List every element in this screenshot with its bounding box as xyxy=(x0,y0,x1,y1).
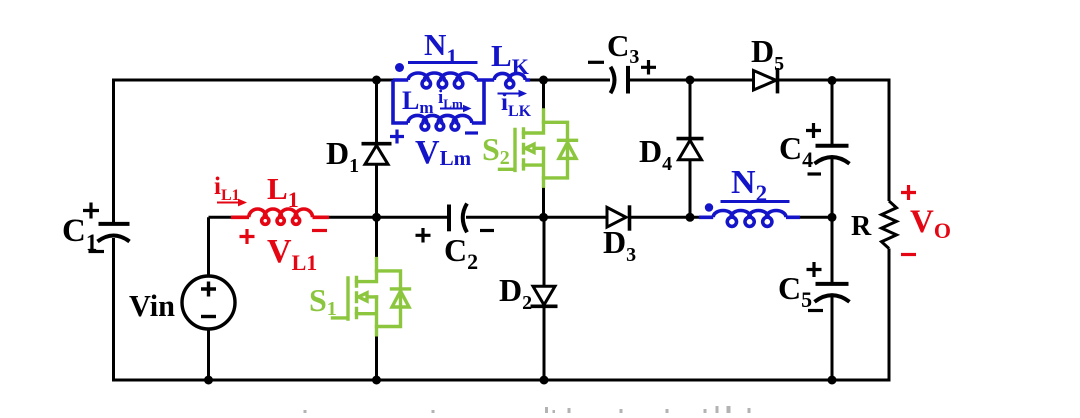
polarity - of C5 xyxy=(808,309,823,312)
capacitor C4 xyxy=(815,146,850,164)
polarity - of C2 xyxy=(480,229,494,232)
capacitor C3 xyxy=(611,66,629,94)
label iLK with arrow xyxy=(498,93,522,95)
wire: middle rail C2 to D3 xyxy=(466,216,607,219)
transistor S1 xyxy=(333,259,410,335)
polarity + of C1 xyxy=(83,203,99,219)
node: junction middle at D4/N2 xyxy=(686,213,695,222)
capacitor C1 xyxy=(98,224,130,242)
node: junction bottom at D2 xyxy=(540,376,549,385)
wire: S2 branch vertical xyxy=(542,80,545,217)
wire: top rail segment LK to C3 xyxy=(528,79,611,82)
node: junction top at D1 xyxy=(372,76,381,85)
wire: middle rail D3 to N2 xyxy=(630,216,702,219)
inductor Lm parallel loop xyxy=(393,80,484,123)
svg-text:Vin: Vin xyxy=(129,288,175,323)
polarity - of C1 xyxy=(89,250,105,253)
transformer winding N2 xyxy=(699,211,800,227)
diode D2 xyxy=(531,286,558,306)
diode D4 xyxy=(677,139,704,160)
polarity + of VLm xyxy=(390,130,404,144)
wire: right rail upper (to R) xyxy=(888,79,891,202)
node: junction middle at S2/D2 xyxy=(539,213,548,222)
node: junction top at S2 xyxy=(539,76,548,85)
caption fragments (cut off at bottom) xyxy=(304,406,751,413)
diode D1 xyxy=(362,144,392,165)
wire: top rail segment C3 to D5 xyxy=(628,79,753,82)
diode D3 xyxy=(607,205,630,230)
inductor L1 xyxy=(231,209,329,224)
diode D5 xyxy=(754,68,778,93)
inductor Lm winding xyxy=(408,115,472,130)
node: junction bottom at Vin xyxy=(204,376,213,385)
wire: Vin branch riser and middle rail start xyxy=(209,217,232,380)
wire: D1 branch vertical xyxy=(375,80,378,217)
polarity - of Vo xyxy=(901,253,916,256)
node: junction bottom at C5 xyxy=(828,376,837,385)
wire: D4 branch vertical xyxy=(689,80,692,217)
polarity + of C2 xyxy=(416,228,431,243)
node: junction middle at L1/D1/S1 xyxy=(372,213,381,222)
wire: top rail segment from left corner to transformer xyxy=(112,79,393,82)
transformer winding N1 xyxy=(393,73,494,88)
capacitor C2 xyxy=(449,204,467,233)
transformer secondary N2: dot xyxy=(705,203,713,211)
polarity + of Vo xyxy=(901,185,916,200)
inductor LK (leakage) xyxy=(494,73,530,87)
node: junction top at D4 xyxy=(686,76,695,85)
polarity - of VLm xyxy=(465,131,478,134)
wire: top rail segment D5 to right corner xyxy=(778,79,890,82)
capacitor C5 xyxy=(815,284,850,302)
resistor R xyxy=(882,201,897,249)
node: junction top at C4 xyxy=(828,76,837,85)
polarity - of VL1 xyxy=(312,229,327,232)
node: junction bottom at S1 xyxy=(372,376,381,385)
polarity + of C5 xyxy=(807,262,822,277)
source Vin xyxy=(182,276,235,329)
wire: D2 branch vertical xyxy=(543,217,546,380)
wire: left rail xyxy=(112,80,115,380)
wire: middle rail N2 to C4 branch xyxy=(799,216,833,219)
polarity + of C4 xyxy=(806,123,821,138)
polarity + of C3 xyxy=(641,60,656,75)
svg-text:R: R xyxy=(851,211,872,242)
node: junction middle at N2/C4/C5 xyxy=(828,213,837,222)
wire: bottom rail xyxy=(112,379,891,382)
wire: middle rail L1 to C2 xyxy=(328,216,449,219)
wire: S1 branch vertical xyxy=(375,217,378,380)
transformer N1 overbar xyxy=(408,61,478,64)
wire: C4 C5 branch vertical xyxy=(831,80,834,380)
transistor S2 xyxy=(500,110,577,186)
transformer primary N1: dot xyxy=(395,63,404,72)
polarity - of C3 xyxy=(588,61,604,64)
transformer N2 overbar xyxy=(721,200,790,203)
polarity - of C4 xyxy=(808,172,822,175)
polarity + of VL1 xyxy=(240,229,255,244)
wire: right rail lower (R to bottom) xyxy=(888,249,891,381)
